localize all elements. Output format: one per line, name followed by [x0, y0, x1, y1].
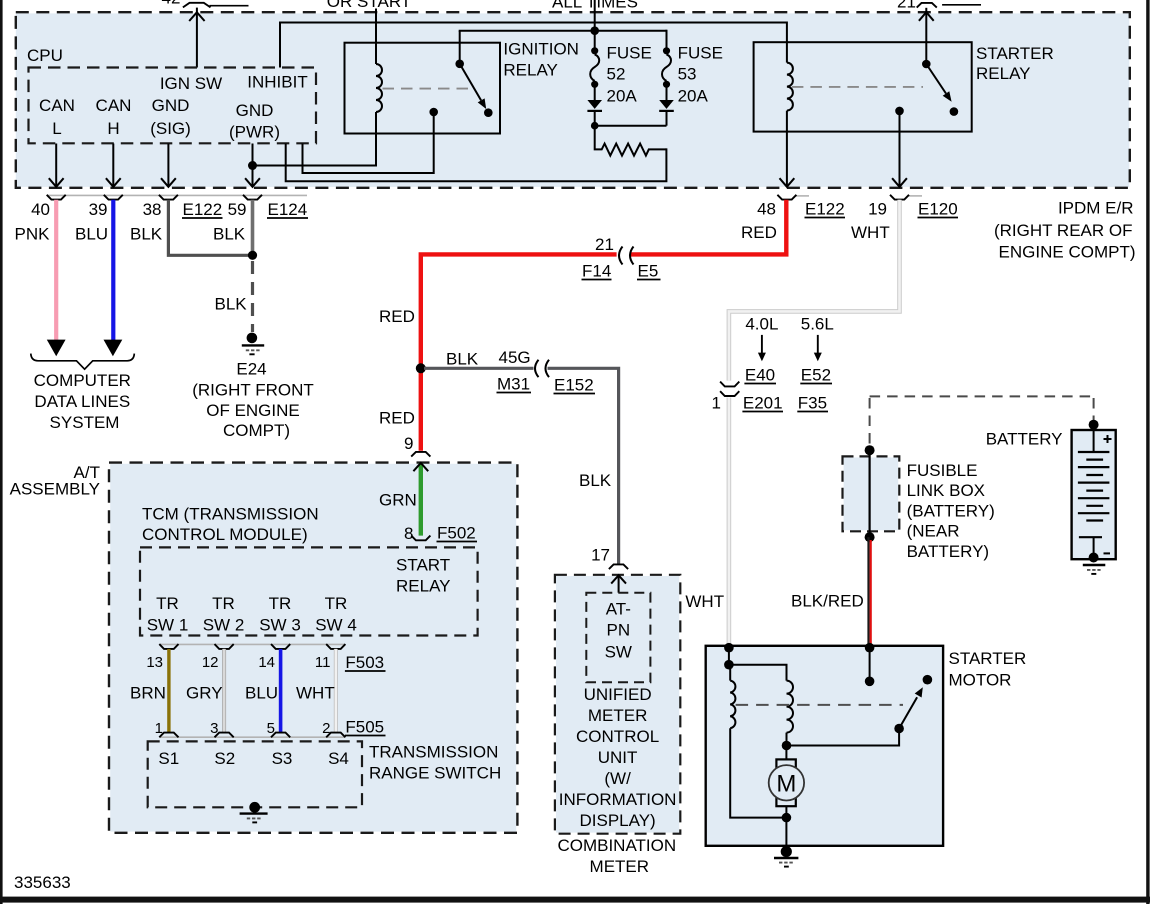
node BLK/RED entry dot: [865, 643, 875, 653]
connector cup pin 14: [271, 644, 290, 649]
svg-text:SW: SW: [605, 642, 632, 661]
connector cup pin 11: [326, 644, 345, 649]
svg-text:12: 12: [202, 654, 219, 671]
node junction GND (PWR) / coil return: [248, 161, 257, 170]
svg-text:S1: S1: [158, 749, 179, 768]
svg-text:BATTERY: BATTERY: [986, 430, 1063, 449]
node WHT entry dot: [724, 643, 734, 653]
wire ALL TIMES feed: [594, 0, 596, 51]
unified meter control unit dashed box (fill): [556, 576, 679, 833]
diode D53: [659, 86, 674, 111]
svg-text:GND: GND: [152, 96, 190, 115]
TCM dashed box: [140, 547, 478, 635]
ground (transmission range switch): [240, 802, 268, 823]
svg-text:IGNITION: IGNITION: [503, 40, 579, 59]
wire INHIBIT to relays (horizontal bus y=22.5): [279, 23, 787, 68]
svg-text:9: 9: [404, 434, 413, 453]
svg-text:39: 39: [89, 200, 108, 219]
wire ignition relay common to CPU: [303, 112, 434, 173]
unified meter control unit dashed box (border): [555, 575, 680, 834]
connector hat pin IGN SW (top): [183, 3, 211, 8]
label TCM (TRANSMISSION CONTROL MODULE): [142, 505, 319, 544]
svg-text:AT-: AT-: [606, 600, 631, 619]
svg-text:RANGE SWITCH: RANGE SWITCH: [369, 764, 501, 783]
svg-text:IGN SW: IGN SW: [160, 74, 222, 93]
svg-text:LINK BOX: LINK BOX: [907, 481, 985, 500]
battery box: [1072, 430, 1116, 559]
label STARTER RELAY: [976, 44, 1054, 83]
wire WHT lower run (core): [728, 398, 731, 648]
connector label E5: [637, 262, 661, 281]
connector cup pin 40: [47, 195, 66, 200]
ground (starter motor): [774, 846, 798, 867]
ignition relay actuation dashed line: [383, 88, 472, 90]
connector cup pin 12: [215, 644, 234, 649]
connector cup pin 8: [411, 536, 430, 541]
connector row line F503 (gray): [160, 643, 344, 645]
starter motor shunt coil: [730, 665, 786, 818]
svg-text:42: 42: [162, 0, 181, 8]
svg-text:GRN: GRN: [379, 491, 417, 510]
label STARTER MOTOR: [949, 649, 1027, 690]
svg-text:WHT: WHT: [296, 684, 335, 703]
pin label TR SW 2: [203, 594, 245, 635]
svg-text:STARTER: STARTER: [949, 649, 1027, 668]
connector label F35: [797, 394, 828, 413]
label IPDM E/R (RIGHT REAR OF ENGINE COMPT): [994, 199, 1136, 262]
connector label E52: [800, 366, 832, 385]
svg-text:(BATTERY): (BATTERY): [907, 501, 995, 520]
node junction battery positive: [1089, 420, 1099, 430]
wire ignition relay pivot to fuses (horizontal y=30.7): [459, 30, 667, 64]
svg-text:E201: E201: [743, 394, 783, 413]
svg-text:FUSE: FUSE: [607, 44, 652, 63]
svg-text:4.0L: 4.0L: [745, 315, 778, 334]
svg-text:SYSTEM: SYSTEM: [50, 413, 120, 432]
brace computer data lines system: [31, 354, 135, 370]
svg-text:45G: 45G: [499, 348, 531, 367]
svg-text:S3: S3: [272, 749, 293, 768]
ignition relay coil: [376, 64, 382, 112]
connector cup pin 38: [159, 195, 178, 200]
svg-text:RED: RED: [741, 223, 777, 242]
connector label M31: [497, 375, 532, 394]
svg-text:CAN: CAN: [39, 96, 75, 115]
node junction RED / BLK 45G: [416, 363, 426, 373]
connector label F14: [582, 262, 612, 281]
wire BLU pin 39: [111, 200, 115, 341]
svg-text:INFORMATION: INFORMATION: [559, 790, 677, 809]
svg-text:BLU: BLU: [245, 684, 278, 703]
svg-text:E40: E40: [745, 366, 775, 385]
svg-text:17: 17: [591, 546, 610, 565]
svg-text:14: 14: [258, 654, 275, 671]
svg-text:E5: E5: [638, 262, 659, 281]
wire WHT stub to winding node: [728, 648, 730, 665]
arrow to E52: [814, 335, 822, 361]
fusible link box dashed (fill): [844, 458, 899, 531]
label UNIFIED METER CONTROL UNIT (W/ INFORMATION DISPLAY): [559, 685, 677, 830]
svg-text:FUSIBLE: FUSIBLE: [907, 461, 978, 480]
svg-text:GRY: GRY: [186, 684, 223, 703]
svg-text:RELAY: RELAY: [976, 64, 1031, 83]
svg-text:335633: 335633: [14, 873, 71, 892]
svg-text:(W/: (W/: [604, 769, 631, 788]
svg-text:BLK: BLK: [213, 225, 246, 244]
svg-text:COMPUTER: COMPUTER: [34, 371, 131, 390]
node motor bottom junction: [782, 813, 792, 823]
svg-text:13: 13: [146, 654, 163, 671]
svg-text:SW 4: SW 4: [315, 616, 357, 635]
starter relay box: [754, 42, 972, 131]
svg-text:F503: F503: [345, 653, 384, 672]
starter relay actuation dashed line: [792, 86, 923, 88]
connector label F503: [345, 653, 386, 672]
pin label CAN H: [96, 96, 132, 138]
starter relay coil: [787, 22, 793, 111]
svg-text:(SIG): (SIG): [150, 119, 191, 138]
wire diode junction bus: [595, 111, 667, 126]
connector break E201/F35 on WHT wire: [720, 382, 739, 396]
connector cup pin 48: [777, 195, 796, 200]
label FUSIBLE LINK BOX (BATTERY) (NEAR BATTERY): [907, 461, 995, 561]
svg-text:TR: TR: [325, 594, 348, 613]
svg-text:E24: E24: [236, 360, 266, 379]
svg-text:GND: GND: [236, 101, 274, 120]
svg-text:WHT: WHT: [685, 592, 724, 611]
diode D52: [587, 86, 602, 125]
ignition relay box: [345, 43, 501, 134]
AT-PN SW dashed box: [586, 593, 650, 683]
wire BLK dashed to E24: [251, 261, 254, 332]
node junction fusible link top: [865, 445, 875, 455]
svg-text:20A: 20A: [678, 86, 709, 105]
connector label E152: [554, 376, 596, 395]
connector label E122 (pin 48): [805, 200, 846, 219]
wire ignition relay coil bottom to GND(PWR) node: [253, 112, 377, 166]
label FUSE 53 20A: [678, 44, 723, 106]
pin label GND (SIG): [150, 96, 191, 138]
dashed link to battery: [870, 396, 1094, 446]
svg-text:BLK: BLK: [215, 295, 248, 314]
svg-text:M31: M31: [497, 375, 530, 394]
svg-text:TCM (TRANSMISSION: TCM (TRANSMISSION: [142, 505, 319, 524]
svg-text:BRN: BRN: [130, 684, 166, 703]
svg-text:ASSEMBLY: ASSEMBLY: [10, 479, 100, 498]
pin label TR SW 4: [315, 594, 357, 635]
wire IGN SW pin up-arrow: [189, 8, 204, 68]
connector cup pin 19: [890, 195, 909, 200]
svg-text:CONTROL MODULE): CONTROL MODULE): [142, 525, 308, 544]
transmission range switch dashed box: [148, 741, 362, 807]
connector hat pin 17: [609, 564, 628, 569]
node winding junction: [724, 660, 734, 670]
svg-text:OR START: OR START: [327, 0, 411, 11]
connector label E120: [918, 200, 959, 219]
starter relay switch: [895, 60, 958, 116]
svg-text:M: M: [776, 770, 796, 797]
connector cup pin 39: [104, 195, 123, 200]
ground (battery): [1083, 565, 1106, 574]
battery plates: [1078, 425, 1110, 558]
resistor R (IPDM internal): [286, 126, 667, 182]
connector label E124: [267, 200, 308, 219]
arrowhead PNK to computer data lines: [47, 340, 66, 357]
svg-text:19: 19: [868, 200, 887, 219]
battery minus sign: [1104, 552, 1111, 554]
svg-text:BLK: BLK: [446, 350, 479, 369]
battery plus sign: [1104, 435, 1112, 443]
svg-text:PN: PN: [606, 621, 630, 640]
starter motor switch: [894, 675, 932, 733]
svg-text:E122: E122: [183, 200, 223, 219]
svg-text:DATA LINES: DATA LINES: [34, 392, 130, 411]
svg-text:SW 2: SW 2: [203, 616, 245, 635]
wire starter relay common to pin 19 down-arrow: [892, 111, 907, 187]
wire BLK/RED fusible link to starter motor: [869, 537, 871, 646]
pin label GND (PWR): [229, 101, 280, 142]
label A/T ASSEMBLY: [10, 463, 100, 499]
svg-text:TR: TR: [156, 594, 179, 613]
connector cup pin 13: [159, 644, 178, 649]
wire PNK pin 40: [54, 200, 58, 341]
wire BLK/RED stub to contact: [869, 648, 871, 682]
wire GRY (pin 12 to S2): [222, 649, 226, 733]
connector row line F505 (gray): [160, 736, 344, 738]
wire BRN (pin 13 to S1): [167, 649, 170, 733]
svg-text:IPDM E/R: IPDM E/R: [1058, 199, 1134, 218]
connector label E40: [744, 366, 776, 385]
svg-text:MOTOR: MOTOR: [949, 671, 1012, 690]
svg-text:38: 38: [143, 200, 162, 219]
svg-text:F35: F35: [798, 394, 827, 413]
svg-text:E120: E120: [918, 200, 958, 219]
connector label E201: [742, 394, 783, 413]
wire BLU (pin 14 to S3): [279, 649, 283, 733]
pin label CAN L: [39, 96, 75, 138]
wire to series winding: [729, 665, 787, 681]
node supply contact: [865, 677, 875, 687]
svg-text:F14: F14: [582, 262, 611, 281]
svg-text:COMPT): COMPT): [223, 421, 290, 440]
connector label E122: [182, 200, 223, 219]
svg-text:53: 53: [678, 65, 697, 84]
svg-text:UNIFIED: UNIFIED: [584, 685, 652, 704]
svg-text:1: 1: [712, 394, 721, 413]
node series coil to switch: [782, 741, 792, 751]
svg-text:F505: F505: [345, 718, 384, 737]
wire CAN H pin down-arrow: [106, 144, 121, 187]
label COMBINATION METER: [557, 836, 676, 876]
svg-text:L: L: [52, 119, 61, 138]
node junction ALL TIMES / fuse bus: [590, 26, 599, 35]
node junction battery negative: [1089, 553, 1099, 563]
svg-text:BLK: BLK: [130, 225, 163, 244]
svg-text:PNK: PNK: [15, 225, 51, 244]
svg-text:RELAY: RELAY: [503, 61, 558, 80]
fuse 53: [662, 47, 671, 88]
svg-text:(RIGHT FRONT: (RIGHT FRONT: [192, 381, 314, 400]
svg-text:F502: F502: [437, 524, 476, 543]
svg-text:UNIT: UNIT: [598, 748, 638, 767]
svg-text:ENGINE COMPT): ENGINE COMPT): [999, 243, 1136, 262]
svg-text:SW 1: SW 1: [147, 616, 189, 635]
connector hat pin 21 (top): [917, 3, 937, 8]
IPDM E/R dashed box (border): [16, 12, 1130, 188]
svg-text:WHT: WHT: [851, 223, 890, 242]
svg-text:BATTERY): BATTERY): [907, 542, 990, 561]
svg-text:METER: METER: [588, 706, 648, 725]
svg-text:STARTER: STARTER: [976, 44, 1054, 63]
svg-text:11: 11: [315, 654, 331, 671]
wire through fusible link: [868, 450, 870, 537]
svg-text:20A: 20A: [607, 86, 638, 105]
wire OR START feed to ignition relay coil: [375, 9, 377, 65]
svg-text:CPU: CPU: [27, 46, 63, 65]
label TRANSMISSION RANGE SWITCH: [369, 743, 501, 783]
CPU dashed box: [29, 68, 317, 144]
svg-text:TRANSMISSION: TRANSMISSION: [369, 743, 498, 762]
fusible link box dashed (border): [843, 456, 900, 531]
connector hat pin 3 (S2): [215, 733, 234, 738]
svg-text:RED: RED: [379, 409, 415, 428]
label FUSE 52 20A: [607, 44, 652, 106]
fuse 52: [590, 47, 599, 88]
label START RELAY: [396, 556, 451, 596]
svg-text:48: 48: [757, 200, 776, 219]
svg-text:8: 8: [404, 524, 413, 543]
arrow to E40: [758, 335, 766, 361]
connector hat pin 2 (S4): [326, 733, 345, 738]
svg-text:S4: S4: [328, 749, 349, 768]
node junction BLK ground wires: [248, 251, 257, 260]
label AT-PN SW: [605, 600, 632, 662]
connector E-label underline top-left (cut): [210, 5, 249, 7]
svg-text:(PWR): (PWR): [229, 123, 280, 142]
svg-text:TR: TR: [269, 594, 292, 613]
wire starter relay pivot to pin 21 up-arrow: [919, 8, 934, 64]
wire WHT pin 19 (core): [729, 200, 900, 381]
connector row line E122/E124 (gray): [47, 194, 922, 197]
svg-text:(RIGHT REAR OF: (RIGHT REAR OF: [994, 221, 1133, 240]
arrowhead BLU to computer data lines: [104, 340, 123, 357]
connector hat pin 1 (S1): [159, 733, 178, 738]
starter motor actuation dashed line: [736, 704, 903, 706]
svg-text:COMBINATION: COMBINATION: [557, 836, 676, 855]
svg-text:CAN: CAN: [96, 96, 132, 115]
wire BLK 45G horizontal: [424, 368, 619, 564]
wire GND (SIG) pin down-arrow: [161, 144, 176, 187]
wire GND (PWR) pin down-arrow: [245, 144, 260, 187]
A/T assembly dashed box (fill): [110, 464, 516, 832]
svg-text:E124: E124: [268, 200, 308, 219]
wire pin 17 into AT-PN SW (arrow): [611, 575, 626, 592]
svg-text:5.6L: 5.6L: [801, 315, 834, 334]
svg-text:E122: E122: [805, 200, 845, 219]
svg-text:CONTROL: CONTROL: [576, 727, 659, 746]
connector E-label underline top-right (cut): [942, 4, 981, 6]
wire WHT (pin 11 to S4): [334, 649, 338, 733]
svg-text:RED: RED: [379, 307, 415, 326]
pin label TR SW 3: [259, 594, 301, 635]
node junction fusible link bottom: [865, 532, 875, 542]
connector hat pin 9 (A/T top): [411, 452, 430, 457]
wire WHT lower run (outline): [727, 398, 732, 648]
svg-text:H: H: [107, 119, 119, 138]
svg-text:SW 3: SW 3: [259, 616, 301, 635]
svg-text:DISPLAY): DISPLAY): [579, 811, 655, 830]
motor M armature: [769, 746, 804, 818]
A/T assembly dashed box (border): [109, 463, 517, 833]
svg-text:(NEAR: (NEAR: [907, 522, 960, 541]
svg-text:INHIBIT: INHIBIT: [247, 73, 307, 92]
wire motor to ground: [785, 818, 787, 849]
wire CAN L pin down-arrow: [49, 144, 64, 187]
connector cup pin 59: [243, 195, 262, 200]
connector label F502: [437, 524, 478, 543]
wire BLK pin 38 to node: [168, 200, 252, 256]
label COMPUTER DATA LINES SYSTEM: [34, 371, 131, 432]
svg-text:21: 21: [595, 235, 614, 254]
wire RED pin 48: [421, 200, 787, 451]
starter motor box (fill): [707, 647, 942, 845]
svg-text:BLU: BLU: [75, 225, 108, 244]
connector label F505: [345, 718, 386, 737]
svg-text:52: 52: [607, 65, 626, 84]
starter motor box (border): [706, 646, 943, 846]
svg-text:BLK: BLK: [579, 471, 612, 490]
svg-text:E152: E152: [554, 376, 594, 395]
connector hat pin 5 (S3): [271, 733, 290, 738]
node junction diode outputs: [591, 122, 599, 130]
svg-text:TR: TR: [212, 594, 235, 613]
svg-text:E52: E52: [801, 366, 831, 385]
label E24 (RIGHT FRONT OF ENGINE COMPT): [192, 360, 314, 441]
svg-text:FUSE: FUSE: [678, 44, 723, 63]
ground E24: [242, 333, 264, 355]
wire series coil to switch pivot: [787, 729, 900, 746]
svg-text:40: 40: [31, 200, 50, 219]
pin label TR SW 1: [147, 594, 189, 635]
ignition relay switch: [429, 60, 492, 117]
svg-text:OF ENGINE: OF ENGINE: [206, 401, 300, 420]
wire starter relay coil to pin 48 down-arrow: [780, 111, 795, 187]
label IGNITION RELAY: [503, 40, 579, 80]
svg-text:59: 59: [228, 200, 247, 219]
svg-text:21: 21: [897, 0, 916, 11]
connector break M31/E152: [535, 360, 549, 377]
svg-text:START: START: [396, 556, 450, 575]
wire WHT pin 19 (outline): [729, 200, 900, 381]
starter motor series coil: [787, 681, 794, 746]
svg-text:METER: METER: [590, 857, 650, 876]
wire GRN into A/T (arrow): [413, 463, 428, 536]
connector break F14/E5 on RED wire: [619, 247, 634, 265]
svg-text:S2: S2: [214, 749, 235, 768]
wire BLK pin 59: [251, 200, 255, 256]
svg-text:BLK/RED: BLK/RED: [791, 592, 864, 611]
svg-text:RELAY: RELAY: [396, 577, 451, 596]
IPDM E/R dashed box (fill): [16, 13, 1130, 187]
